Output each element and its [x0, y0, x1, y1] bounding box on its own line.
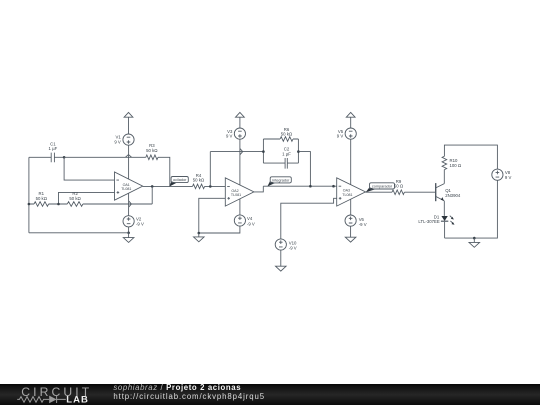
wire LED to bottom rail [444, 222, 446, 238]
node OA3 input junction [332, 185, 335, 188]
wire box right to output drop [298, 152, 310, 187]
voltage source V2 [123, 216, 144, 227]
resistor R9 [392, 179, 404, 195]
node box left junction [262, 150, 265, 153]
CircuitLab logo [17, 385, 92, 405]
wire V5 to power arrow [350, 117, 352, 128]
wire OA3 V+ pin [350, 139, 352, 185]
footer title text [113, 383, 265, 401]
node OA2 input junction [209, 185, 212, 188]
wire V1 to power arrow [128, 117, 130, 134]
svg-text:http://circuitlab.com/ckvph8p4: http://circuitlab.com/ckvph8p4jrqu5 [113, 392, 265, 401]
wire R4 to OA2 inverting input [205, 185, 226, 187]
wire left rail stage1 [28, 157, 30, 233]
resistor R3 [146, 143, 158, 159]
transistor Q1 [436, 183, 461, 201]
wire V3 to power arrow [239, 117, 241, 128]
wire feedback drop [151, 186, 153, 204]
wire V10 reference row [281, 198, 337, 239]
node ground junction stage1 [127, 232, 130, 235]
voltage source V8 [492, 169, 512, 180]
wire node A to R3 (hop over V1 line) [64, 155, 146, 158]
wire V2 to ground node [128, 227, 130, 233]
footer bar [0, 384, 540, 405]
node box right junction [297, 150, 300, 153]
wire bottom row stage1 [29, 203, 152, 205]
wire feedback row to box (hop over V3 line) [210, 151, 263, 153]
node OA1 output junction [151, 185, 154, 188]
wire OA1 V- pin (hop over feedback) [129, 193, 132, 216]
svg-text:LAB: LAB [66, 395, 89, 405]
wire V4 down to ground row [199, 226, 240, 233]
wire OA2 output to OA3 input [263, 185, 336, 187]
wire OA3 V- pin [350, 199, 352, 215]
wire OA2 output step [254, 186, 263, 192]
op-amp OA3 [337, 178, 366, 206]
op-amp OA2 [225, 178, 254, 206]
wire OA2 V- pin [239, 199, 241, 215]
resistor R2 [67, 191, 83, 206]
wire OA2 noninverting loop [199, 198, 226, 233]
wire R9 to Q1 base [404, 191, 435, 193]
wire Q1 collector up [443, 170, 445, 184]
ground below V10 [276, 250, 287, 271]
node bottom rail ground junction [473, 237, 476, 240]
wire C1 to node A [54, 156, 64, 158]
op-amp OA1 [115, 172, 143, 200]
wire OA2 V+ pin (hop over feedback row) [240, 139, 243, 185]
wire Q1 emitter down to LED [443, 201, 445, 216]
wire OA3 output [366, 191, 393, 193]
feedback box wires stage2 [263, 139, 298, 163]
ground stage4 [469, 238, 480, 247]
resistor R4 [193, 173, 205, 189]
wire top stage1 to C1 [29, 156, 51, 158]
flag ocilador [169, 177, 188, 187]
node A junction [63, 156, 66, 159]
voltage source V10 [275, 239, 297, 251]
power flag above V5 [346, 112, 355, 117]
resistor R10 [442, 156, 461, 169]
ground stage1 [123, 233, 134, 243]
resistor R6 [280, 127, 293, 142]
ground below V6 [345, 226, 356, 242]
node R1 left junction [28, 203, 31, 206]
voltage source V6 [345, 215, 367, 227]
wire riser to feedback row [209, 152, 211, 187]
wire R10 top rail to V8 [444, 145, 497, 169]
wire bottom return stage1 [29, 232, 129, 234]
voltage source V1 [114, 134, 134, 145]
power flag above V3 [236, 112, 245, 117]
node output-feedback junction [309, 185, 312, 188]
wire noninverting input OA1 [59, 192, 115, 204]
flag comparador [366, 183, 395, 193]
power flag above V1 [124, 112, 133, 117]
wire R3 right drop to output [158, 157, 170, 186]
wire OA1 V+ pin [128, 145, 130, 179]
resistor R1 [34, 191, 49, 206]
voltage source V3 [226, 128, 246, 139]
capacitor C2 [282, 147, 291, 169]
svg-text:sophiabraz / Projeto 2 acionas: sophiabraz / Projeto 2 acionas [113, 383, 241, 392]
wire inverting input OA1 [64, 157, 114, 180]
flag integrador [267, 177, 291, 187]
wire OA1 output [143, 185, 193, 187]
node R1-R2 junction [57, 203, 60, 206]
node ground junction stage2 [198, 232, 201, 235]
voltage source V5 [337, 128, 357, 139]
wire V8 down and bottom rail [445, 180, 498, 238]
ground stage2 [194, 233, 205, 242]
voltage source V4 [234, 215, 255, 226]
LED D1 [418, 214, 454, 224]
capacitor C1 [49, 141, 58, 162]
